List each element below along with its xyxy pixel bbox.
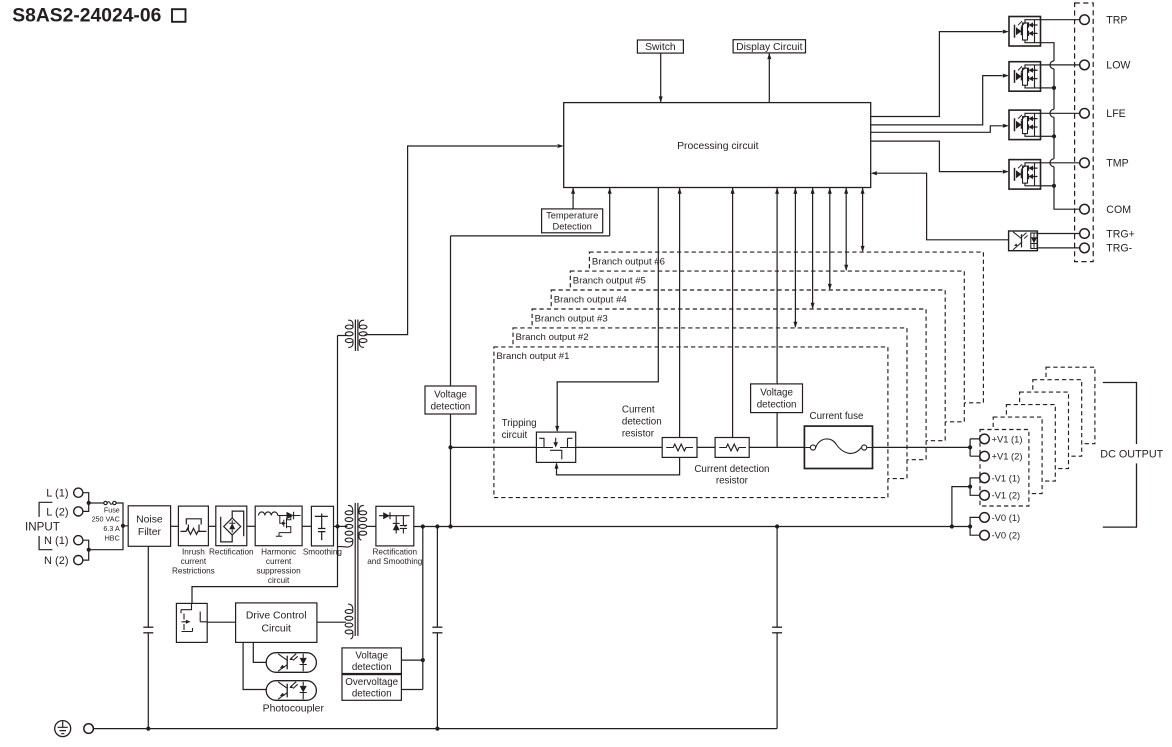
svg-text:detection: detection xyxy=(352,689,392,700)
svg-text:-V0 (1): -V0 (1) xyxy=(992,512,1021,523)
symbol resistor R1 zigzag xyxy=(666,444,693,451)
svg-text:-V1 (2): -V1 (2) xyxy=(992,490,1021,501)
svg-text:Drive Control: Drive Control xyxy=(246,611,307,622)
svg-text:Temperature: Temperature xyxy=(546,210,598,220)
dashed box Branch output #6 xyxy=(589,252,983,403)
wire TRP relay output xyxy=(1026,19,1080,21)
wire Switch to Processing circuit xyxy=(660,53,662,103)
wire voltage detection 1 to processing xyxy=(451,235,610,237)
bracket input lower xyxy=(39,536,52,550)
transformer T1 secondary winding xyxy=(359,511,367,515)
relay TRP xyxy=(1009,17,1041,47)
wire fuse line L xyxy=(89,502,104,504)
wire Q1 to drive control xyxy=(207,621,235,623)
capacitor C1 xyxy=(143,626,153,628)
terminal LOW xyxy=(1080,60,1090,70)
wire trip signal branch #4 xyxy=(829,188,831,290)
box Overvoltage detection xyxy=(342,675,401,701)
svg-text:-V1 (1): -V1 (1) xyxy=(992,472,1021,483)
wire temperature detection to processing xyxy=(572,188,574,209)
wire fuse to noise filter xyxy=(116,503,128,526)
wire C2 leg upper xyxy=(436,527,438,628)
symbol rect-smooth diode 2 xyxy=(395,516,397,534)
capacitor C2 xyxy=(432,626,442,628)
terminal N (1) xyxy=(74,536,83,545)
wire harmonic to smoothing xyxy=(302,525,311,527)
wire drive control to PC2 xyxy=(243,642,266,689)
wire Processing circuit to Display Circuit xyxy=(768,53,770,103)
box Drive Control Circuit xyxy=(236,603,317,643)
box Temperature Detection xyxy=(542,209,603,233)
dashed box DC output group 2 xyxy=(993,417,1042,494)
wire noise filter to inrush xyxy=(171,525,179,527)
relay TMP xyxy=(1009,160,1041,190)
symbol inrush resistor xyxy=(180,528,206,534)
relay LFE xyxy=(1009,110,1041,140)
wire resistor R1 sense xyxy=(679,188,681,438)
svg-text:LFE: LFE xyxy=(1106,108,1125,120)
svg-text:-V0 (2): -V0 (2) xyxy=(992,530,1021,541)
wire TMP relay output xyxy=(1026,162,1080,164)
svg-text:INPUT: INPUT xyxy=(25,521,60,534)
wire L(1)/L(2) join xyxy=(83,493,89,512)
svg-text:Branch output #4: Branch output #4 xyxy=(554,294,628,305)
svg-text:Branch output #6: Branch output #6 xyxy=(592,256,665,267)
wire branch feed riser xyxy=(450,236,452,527)
terminal L (2) xyxy=(74,507,83,516)
svg-text:detection: detection xyxy=(431,401,471,412)
terminal -V1 (1) xyxy=(980,473,990,483)
box Processing circuit xyxy=(564,103,871,188)
wire noise filter leg upper xyxy=(147,546,149,627)
svg-text:N (1): N (1) xyxy=(44,535,68,547)
transformer T1 core xyxy=(354,503,356,636)
terminal TRG- xyxy=(1080,243,1090,253)
wire voltage detection box link xyxy=(401,659,422,661)
svg-text:Voltage: Voltage xyxy=(434,389,467,400)
wire TRP drive xyxy=(871,32,1003,117)
wire rectification to harmonic xyxy=(247,525,255,527)
svg-text:Detection: Detection xyxy=(553,221,592,231)
symbol rectifier diamond xyxy=(224,518,241,535)
terminal -V1 (2) xyxy=(980,491,990,501)
symbol PFC mosfet xyxy=(276,516,291,537)
svg-text:Inrush: Inrush xyxy=(182,548,205,557)
box Switch xyxy=(637,40,683,53)
symbol PFC diode xyxy=(287,512,294,519)
svg-text:detection: detection xyxy=(622,417,662,428)
svg-text:resistor: resistor xyxy=(716,475,749,486)
symbol rect-smooth capacitor xyxy=(400,516,407,534)
terminal TRG+ xyxy=(1080,229,1090,239)
symbol mosfet Q1 xyxy=(181,603,207,631)
transformer T2 core xyxy=(354,320,356,352)
svg-text:Display Circuit: Display Circuit xyxy=(736,42,803,53)
wire smoothing to transformer xyxy=(334,525,348,527)
svg-text:6.3 A: 6.3 A xyxy=(103,524,120,533)
terminal N (2) xyxy=(74,556,83,565)
svg-text:LOW: LOW xyxy=(1106,60,1130,72)
wire TRG input xyxy=(871,171,877,175)
wire C3 leg lower xyxy=(776,633,778,729)
svg-text:current: current xyxy=(181,557,207,566)
wire tripping control xyxy=(557,188,658,432)
svg-text:circuit: circuit xyxy=(502,430,528,441)
symbol rect-smooth diode 1 xyxy=(379,515,410,517)
svg-text:Harmonic: Harmonic xyxy=(261,548,296,557)
wire T2 left lead xyxy=(338,335,348,337)
svg-text:COM: COM xyxy=(1106,204,1131,216)
terminal -V0 (2) xyxy=(980,530,990,540)
wire overvoltage detection box link xyxy=(401,689,422,691)
svg-text:HBC: HBC xyxy=(105,534,120,543)
wire node A to switching mosfet Q1 xyxy=(192,526,338,603)
wire tripping feedback xyxy=(557,457,680,475)
svg-text:L (1): L (1) xyxy=(46,488,68,500)
svg-text:Noise: Noise xyxy=(136,515,163,526)
svg-text:+V1 (2): +V1 (2) xyxy=(992,451,1023,462)
svg-text:N (2): N (2) xyxy=(44,555,68,567)
svg-text:Filter: Filter xyxy=(138,527,162,538)
terminal +V1 (2) xyxy=(980,451,990,461)
svg-text:detection: detection xyxy=(757,399,797,410)
box Voltage detection 1 xyxy=(425,386,476,414)
box switching mosfet Q1 xyxy=(176,603,207,642)
box Display Circuit xyxy=(733,40,805,53)
symbol current fuse xyxy=(810,445,815,450)
wire inrush to rectification xyxy=(208,525,215,527)
wire N(1)/N(2) join xyxy=(83,540,89,560)
svg-text:Current fuse: Current fuse xyxy=(810,411,864,422)
transformer T2 windings xyxy=(345,325,353,329)
symbol tripping mosfet xyxy=(536,438,575,460)
symbol smoothing capacitor xyxy=(315,514,328,529)
dashed box Branch output #2 xyxy=(513,328,907,479)
svg-text:TRP: TRP xyxy=(1106,15,1127,27)
dashed box relay terminal column xyxy=(1075,3,1094,262)
svg-text:Switch: Switch xyxy=(645,42,676,53)
relay LOW xyxy=(1009,62,1041,91)
svg-text:detection: detection xyxy=(352,662,392,673)
box Voltage detection 2 xyxy=(751,384,803,413)
fuse F1 xyxy=(104,501,107,504)
dashed box Branch output #4 xyxy=(551,290,945,441)
wire ground rail xyxy=(94,728,778,730)
svg-text:L (2): L (2) xyxy=(46,506,68,518)
svg-text:circuit: circuit xyxy=(268,576,290,585)
box Harmonic current suppression xyxy=(255,506,302,546)
svg-text:TRG-: TRG- xyxy=(1106,243,1132,255)
wire TMP drive xyxy=(871,141,1003,172)
bracket input upper xyxy=(39,502,52,517)
wire C3 leg upper xyxy=(776,527,778,628)
wire -V1 fork xyxy=(952,478,980,527)
wire -V0 fork xyxy=(970,517,980,535)
ground symbol PE xyxy=(55,721,71,737)
wire T2 right lead to processing xyxy=(365,146,557,335)
svg-text:Current: Current xyxy=(622,405,655,416)
box Rectification xyxy=(216,506,247,546)
svg-text:Restrictions: Restrictions xyxy=(172,567,215,576)
svg-text:Processing circuit: Processing circuit xyxy=(677,141,759,152)
svg-text:Current detection: Current detection xyxy=(694,464,769,475)
capacitor C3 xyxy=(772,626,782,628)
wire trip signal branch #6 xyxy=(862,188,864,252)
terminal PE xyxy=(84,724,94,734)
terminal LFE xyxy=(1080,109,1090,119)
svg-text:TRG+: TRG+ xyxy=(1106,228,1135,240)
svg-text:Branch output #2: Branch output #2 xyxy=(516,332,589,343)
wire TRG- output xyxy=(1037,247,1079,249)
dashed box Branch output #5 xyxy=(570,271,964,422)
svg-text:current: current xyxy=(266,557,292,566)
svg-text:Branch output #5: Branch output #5 xyxy=(573,275,646,286)
wire LOW drive xyxy=(871,76,1003,125)
svg-text:250 VAC: 250 VAC xyxy=(92,514,120,523)
svg-text:resistor: resistor xyxy=(622,429,655,440)
svg-text:Tripping: Tripping xyxy=(502,418,537,429)
svg-text:Circuit: Circuit xyxy=(261,624,291,635)
wire resistor R2 sense xyxy=(732,188,734,438)
wire secondary output rail xyxy=(414,526,970,528)
dashed box DC output group 1 xyxy=(980,430,1029,507)
svg-text:suppression: suppression xyxy=(257,567,302,576)
photocoupler PC2 xyxy=(266,681,316,701)
wire node A riser (smoothing to aux transformer T2) xyxy=(337,336,339,527)
box Noise Filter xyxy=(128,506,170,547)
terminal L (1) xyxy=(74,488,83,497)
svg-text:Smoothing: Smoothing xyxy=(303,548,343,557)
dashed box DC output group 5 xyxy=(1033,380,1082,457)
wire trip signal branch #2 xyxy=(794,188,796,327)
terminal TMP xyxy=(1080,158,1090,168)
symbol resistor R2 zigzag xyxy=(719,444,746,451)
svg-text:Overvoltage: Overvoltage xyxy=(345,677,398,688)
svg-text:Voltage: Voltage xyxy=(355,650,388,661)
transformer T1 primary winding xyxy=(345,511,353,515)
box current fuse F2 xyxy=(804,426,872,468)
svg-text:Rectification: Rectification xyxy=(372,548,417,557)
box Voltage detection 3 xyxy=(342,648,401,674)
box current detection resistor R2 xyxy=(715,438,749,458)
svg-text:Rectification: Rectification xyxy=(209,548,254,557)
transformer T1 auxiliary winding xyxy=(345,610,353,614)
svg-text:Photocoupler: Photocoupler xyxy=(263,704,325,715)
svg-text:and Smoothing: and Smoothing xyxy=(367,557,423,566)
svg-text:DC OUTPUT: DC OUTPUT xyxy=(1100,449,1163,461)
svg-text:Fuse: Fuse xyxy=(104,506,120,515)
wire TRG+ output xyxy=(1037,233,1079,235)
terminal TRP xyxy=(1080,15,1090,25)
wire drive control to PC1 xyxy=(253,642,266,662)
svg-text:Branch output #1: Branch output #1 xyxy=(496,351,569,362)
photocoupler PC1 xyxy=(266,653,316,673)
wire +V1 fork xyxy=(970,439,980,456)
box Inrush current restrictions xyxy=(178,506,208,546)
wire trip signal branch #3 xyxy=(812,188,814,309)
terminal +V1 (1) xyxy=(980,434,990,444)
bracket DC OUTPUT xyxy=(1103,383,1137,528)
dashed box Branch output #3 xyxy=(532,309,926,460)
wire COM bus xyxy=(1041,43,1080,210)
dashed box DC output group 6 xyxy=(1046,367,1095,444)
box tripping circuit xyxy=(536,432,575,462)
wire LFE relay output xyxy=(1026,112,1080,114)
svg-text:+V1 (1): +V1 (1) xyxy=(992,433,1023,444)
svg-text:Voltage: Voltage xyxy=(760,387,793,398)
svg-text:Branch output #3: Branch output #3 xyxy=(535,313,608,324)
terminal COM xyxy=(1080,204,1090,214)
photocoupler TRG xyxy=(1009,231,1038,251)
wire trip signal branch #5 xyxy=(845,188,847,271)
terminal -V0 (1) xyxy=(980,513,990,523)
symbol PFC inductor xyxy=(259,512,278,516)
dashed box Branch output #1 xyxy=(494,347,888,498)
wire LFE drive xyxy=(871,126,1003,133)
svg-text:S8AS2-24024-06: S8AS2-24024-06 xyxy=(12,5,161,26)
svg-text:TMP: TMP xyxy=(1106,158,1128,170)
dashed box DC output group 4 xyxy=(1020,392,1069,469)
wire N to noise filter xyxy=(89,526,123,550)
box Rectification and Smoothing xyxy=(376,506,414,546)
wire LOW relay output xyxy=(1026,64,1080,66)
title suffix box xyxy=(172,9,186,22)
wire voltage detection tap xyxy=(422,527,424,690)
wire noise filter leg lower xyxy=(147,633,149,729)
wire C2 leg lower xyxy=(436,633,438,729)
wire voltage detection 2 line xyxy=(776,188,778,448)
dashed box DC output group 3 xyxy=(1006,405,1055,482)
box Smoothing xyxy=(311,506,333,546)
box current detection resistor R1 xyxy=(662,438,697,458)
wire branch line xyxy=(451,446,971,448)
